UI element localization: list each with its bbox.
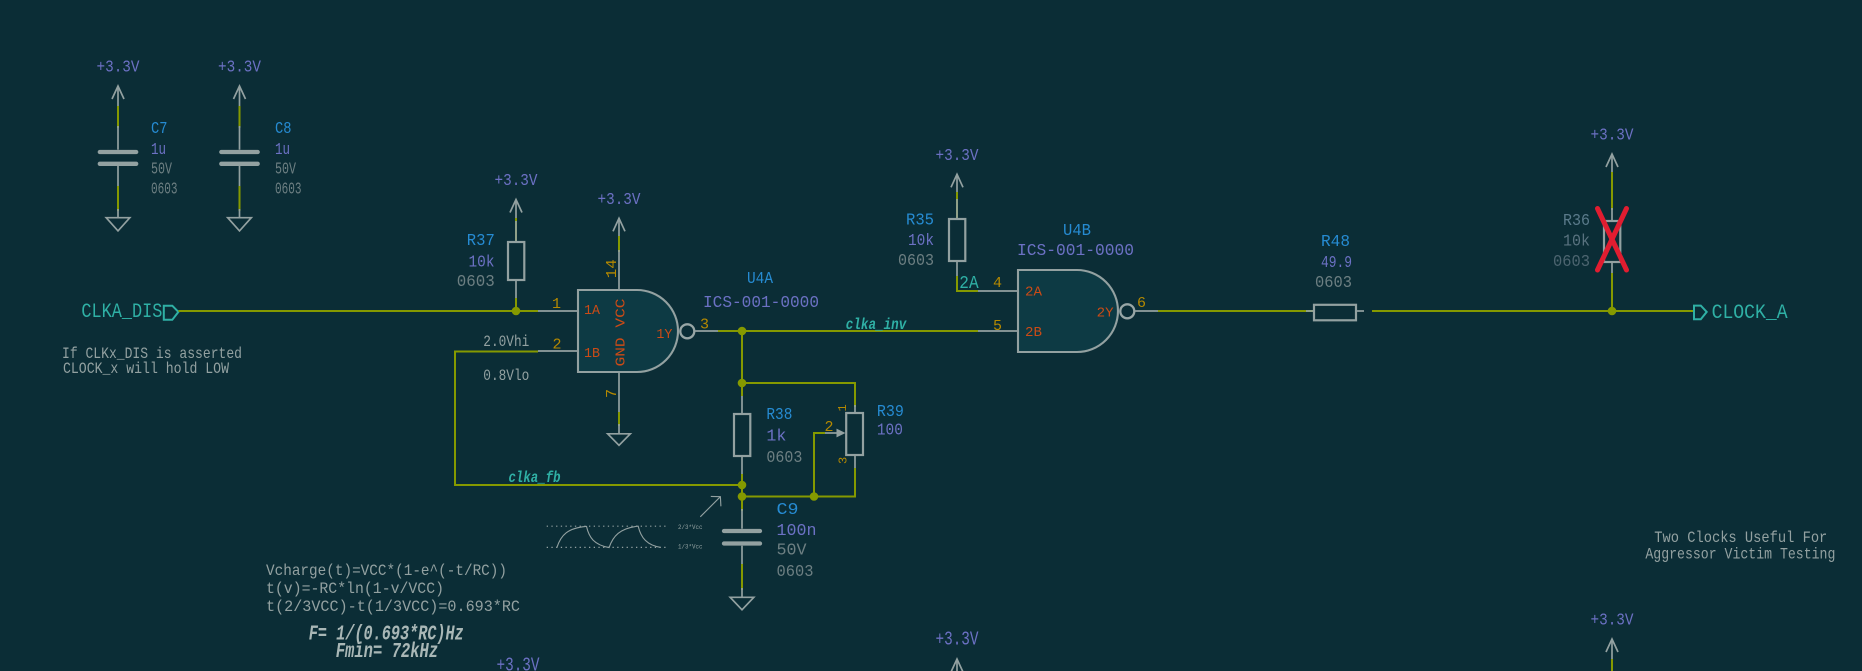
svg-text:clka_inv: clka_inv	[846, 316, 908, 334]
wire R37 to net	[515, 298, 517, 311]
svg-text:10k: 10k	[908, 232, 934, 251]
wire C9 top	[741, 497, 743, 512]
svg-text:0603: 0603	[766, 449, 802, 468]
svg-text:+3.3V: +3.3V	[97, 58, 140, 77]
U4B output bubble	[1120, 304, 1134, 318]
svg-text:2/3*Vcc: 2/3*Vcc	[678, 524, 703, 531]
ground symbol (C8)	[228, 218, 252, 231]
svg-text:49.9: 49.9	[1321, 254, 1352, 273]
svg-text:1A: 1A	[584, 303, 601, 319]
svg-text:+3.3V: +3.3V	[495, 171, 538, 190]
resistor R38	[741, 396, 743, 414]
svg-text:1k: 1k	[766, 427, 786, 446]
wire node to R39 top	[742, 383, 855, 407]
wire C7 to +3.3V	[117, 106, 119, 128]
svg-text:7: 7	[604, 389, 621, 398]
U4B pin 5	[978, 330, 1018, 332]
svg-text:0603: 0603	[151, 181, 178, 200]
svg-text:0603: 0603	[1315, 274, 1352, 293]
svg-text:10k: 10k	[1563, 233, 1590, 252]
svg-text:CLKA_DIS: CLKA_DIS	[81, 301, 162, 324]
svg-text:C8: C8	[275, 120, 292, 139]
U4B pin 6 output	[1135, 310, 1160, 312]
capacitor C8	[239, 126, 241, 150]
hierarchical label CLOCK_A	[1694, 306, 1707, 320]
svg-text:t(2/3VCC)-t(1/3VCC)=0.693*RC: t(2/3VCC)-t(1/3VCC)=0.693*RC	[266, 598, 520, 616]
svg-text:Fmin= 72kHz: Fmin= 72kHz	[336, 641, 439, 664]
svg-text:U4A: U4A	[747, 270, 774, 289]
U4A pin 14 VCC	[618, 250, 620, 290]
svg-text:100: 100	[877, 422, 903, 441]
svg-text:2Y: 2Y	[1097, 306, 1115, 322]
wire +3.3V to R35	[956, 192, 958, 219]
wire C7 to ground	[117, 186, 119, 211]
U4A pin 1	[538, 310, 578, 312]
U4A pin 3 output	[695, 330, 721, 332]
ground symbol (C9)	[730, 597, 754, 610]
wire R38 bottom	[741, 474, 743, 485]
svg-text:2B: 2B	[1025, 325, 1042, 341]
junction (R38/R39 top node)	[738, 379, 747, 388]
svg-text:1: 1	[836, 404, 850, 411]
svg-text:0603: 0603	[1553, 253, 1590, 272]
svg-text:ICS-001-0000: ICS-001-0000	[1017, 242, 1134, 261]
junction (CLOCK_A node)	[1608, 307, 1617, 316]
op-amp U4B nand gate body	[1018, 270, 1118, 352]
svg-text:GND VCC: GND VCC	[614, 299, 630, 367]
svg-text:2: 2	[824, 419, 833, 436]
resistor R36 (DNP)	[1611, 208, 1613, 221]
svg-text:2.0Vhi: 2.0Vhi	[483, 333, 529, 351]
wire +3.3V to R36	[1611, 172, 1613, 210]
svg-text:50V: 50V	[777, 541, 808, 560]
waveform threshold line 1/3Vcc	[547, 546, 668, 548]
wire R48 to CLOCK_A	[1372, 310, 1694, 312]
svg-text:Two Clocks Useful For: Two Clocks Useful For	[1654, 529, 1827, 547]
resistor R37	[515, 221, 517, 242]
ground pin (C9)	[741, 588, 743, 597]
svg-text:100n: 100n	[777, 522, 817, 541]
svg-text:10k: 10k	[469, 253, 495, 272]
svg-text:Vcharge(t)=VCC*(1-e^(-t/RC)): Vcharge(t)=VCC*(1-e^(-t/RC))	[266, 562, 507, 580]
svg-text:1Y: 1Y	[656, 327, 673, 343]
U4B pin 4	[978, 290, 1018, 292]
svg-text:+3.3V: +3.3V	[598, 190, 641, 209]
potentiometer R39	[854, 405, 856, 413]
wire fb node down	[741, 485, 743, 510]
wire below +3.3V (bottom right)	[1611, 659, 1613, 671]
svg-text:C9: C9	[777, 501, 799, 520]
ground (below C7)	[117, 209, 119, 218]
svg-text:3: 3	[836, 457, 850, 464]
wire feedback (pin2 to clka_fb run)	[455, 352, 742, 486]
svg-text:0603: 0603	[777, 563, 814, 582]
svg-text:1u: 1u	[275, 141, 290, 160]
svg-text:ICS-001-0000: ICS-001-0000	[703, 294, 819, 313]
ground pin (U4A)	[618, 424, 620, 434]
wire U4B output to R48	[1158, 310, 1314, 312]
svg-text:14: 14	[604, 259, 621, 278]
wire +3.3V to U4A pin 14	[618, 236, 620, 252]
svg-text:50V: 50V	[275, 161, 297, 180]
ground (below C8)	[239, 209, 241, 218]
junction (R37 bottom / CLKA_DIS net)	[512, 307, 521, 316]
svg-text:1/3*Vcc: 1/3*Vcc	[678, 544, 703, 551]
capacitor C7	[117, 126, 119, 150]
ground symbol (C7)	[106, 218, 130, 231]
wire +3.3V to R37	[515, 218, 517, 242]
svg-text:0603: 0603	[898, 252, 934, 271]
svg-text:R39: R39	[877, 403, 904, 422]
svg-text:+3.3V: +3.3V	[936, 146, 979, 165]
svg-text:2A: 2A	[959, 274, 978, 294]
wire R39 bottom to C9 node	[742, 468, 855, 497]
svg-text:50V: 50V	[151, 161, 173, 180]
svg-text:clka_fb: clka_fb	[509, 469, 561, 487]
junction (clka_inv node)	[738, 327, 747, 336]
junction (C9 top node)	[738, 492, 747, 501]
svg-text:0.8Vlo: 0.8Vlo	[483, 367, 529, 385]
svg-text:3: 3	[700, 316, 709, 333]
svg-text:0603: 0603	[457, 273, 495, 292]
wire node down to R38 node	[741, 331, 743, 396]
svg-text:6: 6	[1137, 295, 1146, 312]
svg-text:2A: 2A	[1025, 285, 1043, 301]
svg-text:1u: 1u	[151, 141, 166, 160]
wire C8 to +3.3V	[239, 106, 241, 128]
DNP red X over R36	[1598, 209, 1627, 271]
resistor R35	[956, 199, 958, 219]
wire R36 to CLOCK_A node	[1611, 273, 1613, 311]
annotation arrow to C9 node	[700, 496, 721, 516]
svg-text:+3.3V: +3.3V	[1591, 611, 1634, 630]
svg-text:CLOCK_x will hold LOW: CLOCK_x will hold LOW	[63, 360, 229, 378]
svg-text:+3.3V: +3.3V	[497, 655, 540, 671]
svg-text:t(v)=-RC*ln(1-v/VCC): t(v)=-RC*ln(1-v/VCC)	[266, 580, 444, 598]
svg-text:+3.3V: +3.3V	[1591, 126, 1634, 145]
op-amp U4A nand gate body	[578, 290, 678, 372]
svg-text:R38: R38	[766, 406, 792, 425]
wire clka_inv net	[742, 330, 978, 332]
svg-text:R35: R35	[906, 212, 934, 231]
waveform charge curves	[557, 526, 661, 548]
svg-text:5: 5	[993, 318, 1002, 335]
U4A pin 2	[538, 350, 578, 352]
svg-text:+3.3V: +3.3V	[218, 58, 261, 77]
svg-text:CLOCK_A: CLOCK_A	[1712, 302, 1788, 325]
svg-text:1B: 1B	[584, 346, 600, 362]
waveform threshold line 2/3Vcc	[547, 525, 668, 527]
junction (wiper node)	[810, 492, 819, 501]
U4A output bubble	[680, 324, 694, 338]
svg-text:R48: R48	[1321, 233, 1350, 252]
wire C9 to ground	[741, 564, 743, 590]
ground symbol (U4A)	[608, 434, 631, 446]
junction (clka_fb node)	[738, 481, 747, 490]
svg-text:1: 1	[552, 296, 561, 313]
svg-text:U4B: U4B	[1063, 222, 1091, 241]
svg-text:R37: R37	[467, 232, 495, 251]
svg-text:+3.3V: +3.3V	[936, 629, 979, 651]
capacitor C9	[741, 509, 743, 529]
svg-text:0603: 0603	[275, 181, 302, 200]
resistor R48	[1306, 310, 1314, 312]
wire R39 wiper to fb node	[814, 433, 825, 497]
svg-text:R36: R36	[1563, 212, 1590, 231]
svg-text:Aggressor Victim Testing: Aggressor Victim Testing	[1645, 546, 1835, 564]
svg-text:2: 2	[552, 337, 561, 354]
wire CLKA_DIS to U4A pin 1	[179, 310, 539, 312]
wire R35 to U4B pin 4	[957, 276, 978, 291]
wire C8 to ground	[239, 186, 241, 211]
svg-text:4: 4	[993, 275, 1002, 292]
wire U4A output to node	[718, 330, 742, 332]
svg-text:C7: C7	[151, 120, 168, 139]
wire U4A pin 7 to ground	[618, 412, 620, 426]
U4A pin 7 GND	[618, 372, 620, 414]
